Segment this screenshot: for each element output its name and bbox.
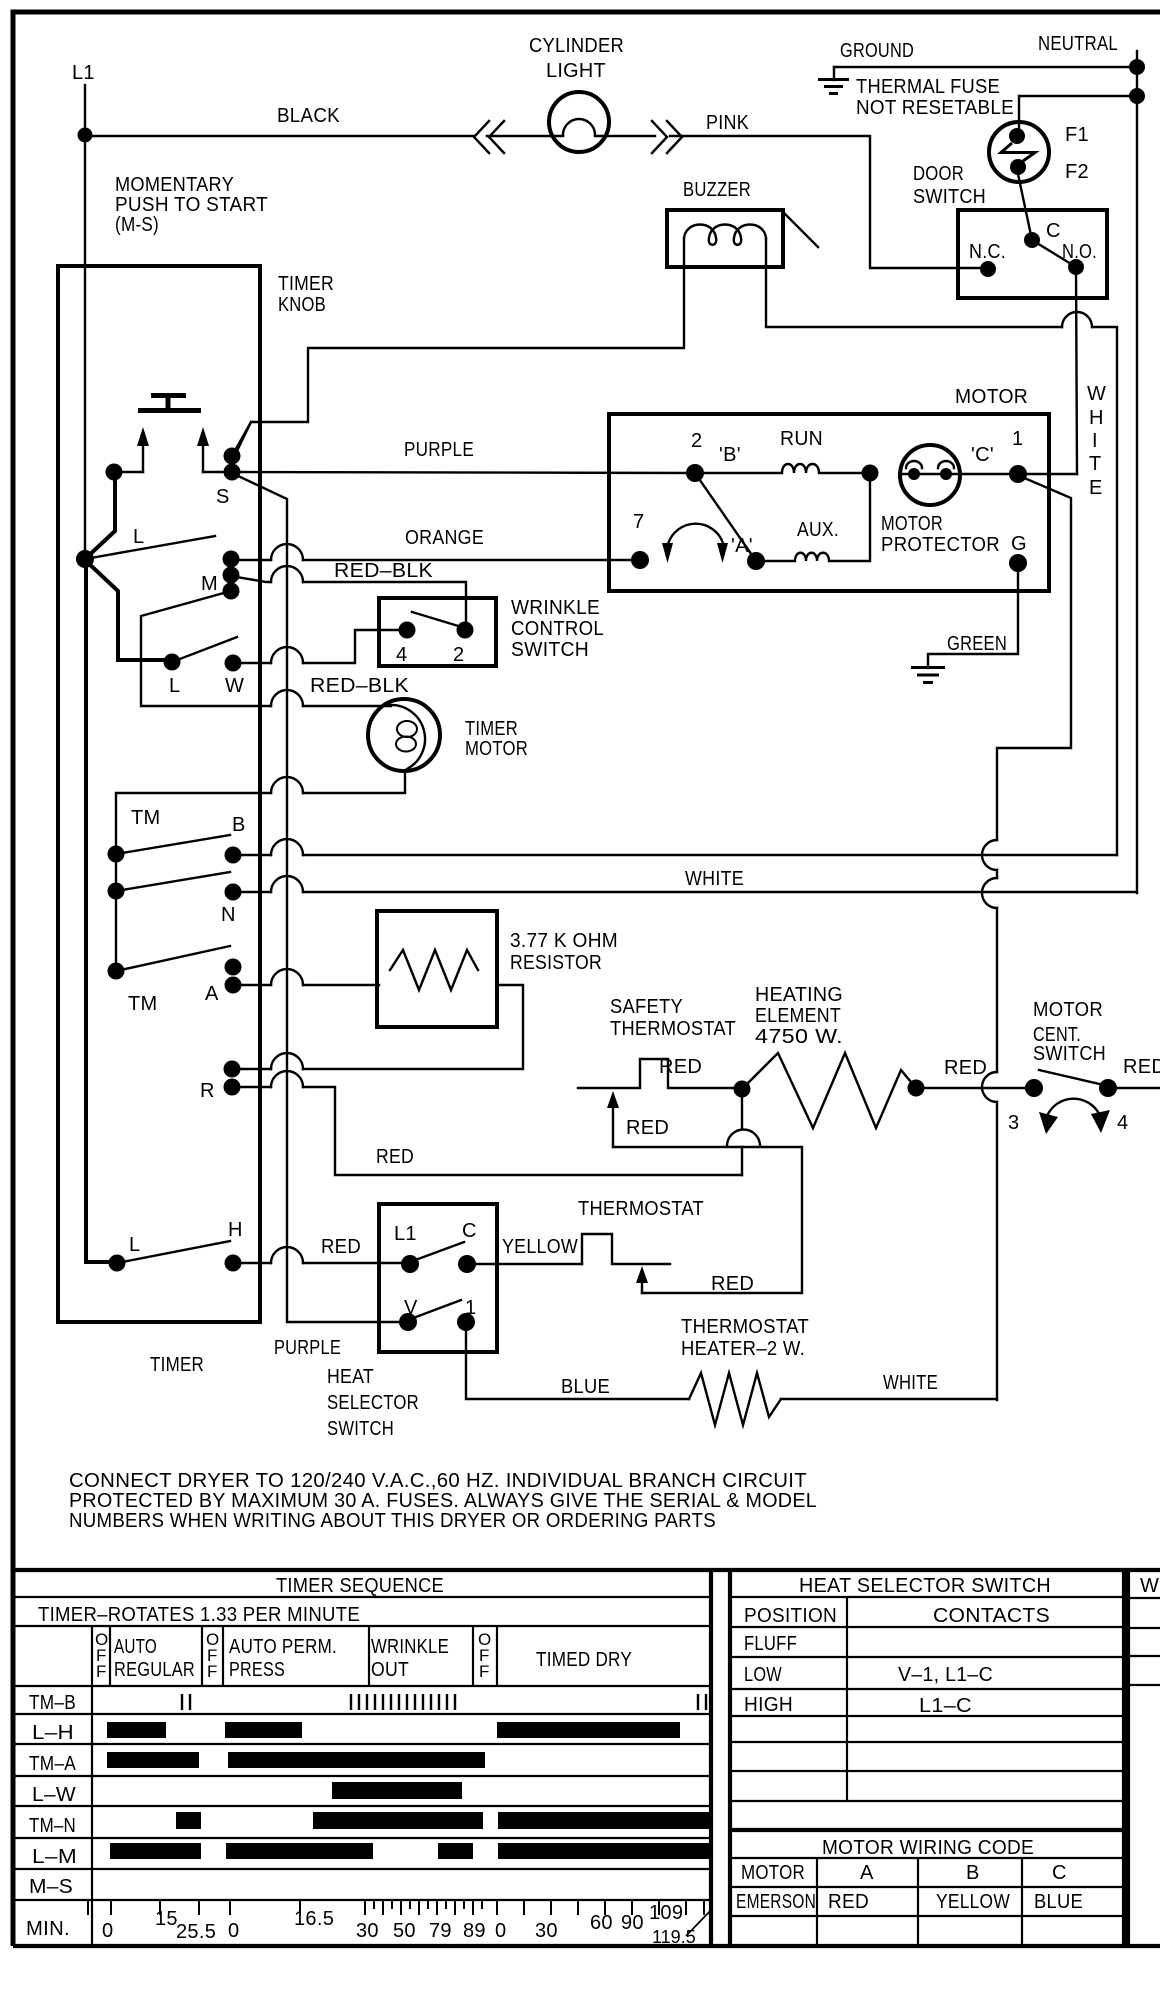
L-H cam bars (107, 1722, 166, 1738)
wire momentary left contact (114, 471, 143, 473)
wire ORANGE M to motor 7 (231, 559, 640, 561)
svg-text:YELLOW: YELLOW (936, 1891, 1010, 1913)
TM-N cam bars (176, 1812, 201, 1829)
motor box (609, 414, 1049, 591)
svg-text:7: 7 (633, 511, 644, 533)
svg-text:PROTECTOR: PROTECTOR (881, 534, 1000, 556)
svg-text:0: 0 (228, 1920, 239, 1942)
svg-text:HEAT SELECTOR SWITCH: HEAT SELECTOR SWITCH (799, 1575, 1051, 1597)
svg-text:RED: RED (828, 1891, 869, 1913)
safety thermostat sensor arrow (612, 1107, 614, 1147)
hop R wire over purple riser (271, 1053, 303, 1069)
svg-text:0: 0 (102, 1920, 113, 1942)
pin momentary L contact (106, 464, 123, 481)
svg-text:CONTACTS: CONTACTS (933, 1605, 1050, 1627)
svg-text:3: 3 (1008, 1112, 1019, 1134)
svg-text:GREEN: GREEN (947, 633, 1007, 655)
L-W cam bar (332, 1782, 462, 1799)
svg-text:4750 W.: 4750 W. (755, 1026, 843, 1048)
buzzer box (667, 210, 783, 267)
timer motor body (368, 699, 440, 771)
svg-text:TM: TM (128, 993, 157, 1015)
heat selector switch box (379, 1204, 497, 1352)
svg-text:PINK: PINK (706, 112, 749, 134)
resistor element (390, 950, 478, 990)
svg-text:BLUE: BLUE (561, 1376, 610, 1398)
svg-text:TM–B: TM–B (29, 1692, 76, 1714)
svg-text:A: A (860, 1862, 874, 1884)
svg-text:TM–N: TM–N (29, 1815, 76, 1837)
motor protector contacts (902, 461, 958, 474)
svg-text:WRINKLE: WRINKLE (511, 597, 600, 619)
svg-text:L1–C: L1–C (919, 1695, 972, 1717)
svg-text:POSITION: POSITION (744, 1605, 837, 1627)
pin wrinkle 4 (399, 622, 416, 639)
thermostat sensor arrow (641, 1283, 643, 1293)
rotation arrows cent switch (1048, 1099, 1098, 1114)
pin door switch N.O. (1068, 259, 1084, 275)
svg-text:WHITE: WHITE (883, 1372, 938, 1394)
node neutral-fuse junction (1129, 88, 1145, 104)
svg-text:THERMOSTAT: THERMOSTAT (610, 1018, 736, 1040)
table timer sequence frame (13, 1570, 1160, 1946)
svg-text:L1: L1 (394, 1223, 417, 1245)
wire S to purple riser diagonal (236, 475, 408, 1322)
wire R drop hop at red link (741, 1089, 743, 1175)
pin TM 2 (108, 883, 125, 900)
thick feed L node to momentary contact (85, 477, 115, 559)
hop timer-motor wire over purple riser (271, 690, 303, 706)
pin motor A (747, 552, 765, 570)
svg-text:NUMBERS WHEN WRITING ABOUT THI: NUMBERS WHEN WRITING ABOUT THIS DRYER OR… (69, 1510, 716, 1532)
wire buzzer to B riser (1092, 327, 1117, 855)
svg-text:MOTOR: MOTOR (1033, 999, 1103, 1021)
svg-text:30: 30 (356, 1920, 379, 1942)
pin H of L-H (225, 1255, 242, 1272)
svg-text:N.C.: N.C. (969, 241, 1006, 263)
thermal fuse body (989, 122, 1049, 182)
hop N wire over purple riser (271, 876, 303, 892)
svg-text:CONNECT DRYER TO 120/240 V.A.C: CONNECT DRYER TO 120/240 V.A.C.,60 HZ. I… (69, 1470, 807, 1492)
node neutral-ground junction (1129, 59, 1145, 75)
svg-text:15: 15 (155, 1908, 178, 1930)
svg-text:30: 30 (535, 1920, 558, 1942)
wire cent switch 4 to edge RED (1108, 1087, 1160, 1089)
svg-text:M–S: M–S (29, 1876, 73, 1898)
hop W wire over purple riser (271, 647, 303, 663)
hop H wire over purple riser (271, 1247, 303, 1263)
svg-text:H: H (1089, 407, 1104, 429)
blade motor 2 to A (695, 473, 756, 561)
wire neutral vertical to N (1136, 67, 1138, 893)
wire buzzer right lead (766, 239, 1062, 327)
svg-text:F: F (207, 1662, 217, 1681)
TM-B cam ticks left (182, 1694, 190, 1710)
svg-text:MIN.: MIN. (26, 1918, 70, 1940)
svg-text:L: L (129, 1234, 140, 1256)
pin heat sel L1 (401, 1255, 419, 1273)
wire timer motor bottom to TM pivot (116, 772, 405, 854)
svg-text:TIMER: TIMER (278, 273, 334, 295)
svg-text:PRESS: PRESS (229, 1659, 285, 1681)
svg-text:RED: RED (321, 1236, 361, 1258)
wire white drop to heater line (996, 1102, 998, 1400)
momentary actuator arrow left (142, 446, 144, 472)
svg-text:HEAT: HEAT (327, 1366, 374, 1388)
pin M middle (223, 567, 240, 584)
pin heat sel C (458, 1255, 476, 1273)
svg-text:LOW: LOW (744, 1664, 782, 1686)
wire R lower to safety thermostat (232, 1087, 742, 1175)
ruler long ticks (88, 1900, 704, 1915)
svg-text:I: I (1092, 430, 1098, 452)
pin M top (223, 551, 240, 568)
node L pivot (76, 550, 94, 568)
wire motor 1 to N.O. riser (1018, 473, 1077, 475)
TM-B cam ticks right (698, 1694, 706, 1710)
wire heating element to cent switch 3 (916, 1087, 1034, 1089)
svg-text:L–H: L–H (32, 1722, 74, 1744)
svg-text:TIMER: TIMER (150, 1354, 204, 1376)
wire A to resistor (233, 984, 379, 986)
ruler short ticks (374, 1900, 482, 1909)
svg-text:N.O.: N.O. (1062, 241, 1097, 263)
svg-text:RED: RED (1123, 1056, 1160, 1078)
wire C to thermostat YELLOW (467, 1263, 582, 1265)
wire buzzer left lead to S line (236, 239, 684, 453)
node heating element left (734, 1081, 751, 1098)
wire heat sel 1 down to BLUE (466, 1322, 689, 1399)
hop TM wire over purple riser (271, 777, 303, 793)
svg-text:TIMER SEQUENCE: TIMER SEQUENCE (276, 1575, 444, 1597)
svg-text:89: 89 (463, 1920, 486, 1942)
node L1 junction (78, 128, 93, 143)
door switch box (958, 210, 1107, 298)
wire sensor red link (613, 1147, 802, 1293)
pin motor 7 (631, 551, 649, 569)
svg-text:PUSH TO START: PUSH TO START (115, 194, 268, 216)
svg-text:RESISTOR: RESISTOR (510, 952, 602, 974)
L-M cam bars (110, 1843, 201, 1859)
svg-text:TIMER–ROTATES 1.33 PER MINUTE: TIMER–ROTATES 1.33 PER MINUTE (38, 1604, 360, 1626)
pin TM 1 (108, 846, 125, 863)
svg-text:(M-S): (M-S) (115, 214, 159, 236)
svg-text:MOTOR: MOTOR (741, 1862, 805, 1884)
blade wrinkle 2 to 4 (412, 612, 465, 628)
TM-A cam bars (107, 1752, 199, 1768)
svg-text:ʹCʹ: ʹCʹ (971, 444, 994, 466)
wire N to neutral riser (233, 891, 1137, 893)
wire white drop to cent switch level (996, 908, 998, 1072)
wire white drop segment (996, 870, 998, 878)
svg-text:NEUTRAL: NEUTRAL (1038, 33, 1118, 55)
svg-text:LIGHT: LIGHT (546, 60, 606, 82)
svg-text:ELEMENT: ELEMENT (755, 1005, 841, 1027)
hop white drop over heater wire (982, 1072, 997, 1102)
svg-text:CONTROL: CONTROL (511, 618, 604, 640)
cylinder light lamp (549, 92, 609, 152)
svg-text:ʹBʹ: ʹBʹ (719, 444, 741, 466)
wire PURPLE S to motor 2 (232, 472, 695, 473)
aux winding (756, 473, 870, 561)
buzzer coil (684, 225, 766, 245)
wire fuse to door switch common (1018, 174, 1032, 240)
wire H to heat selector L1 (233, 1262, 410, 1264)
timer motor coil (390, 705, 425, 769)
pin heat sel V (399, 1313, 417, 1331)
blade L-M from pivot (85, 536, 215, 559)
svg-text:F2: F2 (1065, 161, 1089, 183)
node run-aux junction (862, 465, 879, 482)
svg-text:RED–BLK: RED–BLK (310, 675, 409, 697)
svg-text:G: G (1011, 533, 1027, 555)
thermal fuse element (1001, 143, 1035, 161)
blade L-W (172, 637, 237, 662)
svg-text:25.5: 25.5 (176, 1921, 216, 1943)
svg-text:THERMOSTAT: THERMOSTAT (578, 1198, 704, 1220)
wire chevron to cylinder light (487, 135, 563, 137)
pin motor G (1009, 554, 1027, 572)
blade TM-N (116, 872, 230, 891)
svg-text:MOTOR: MOTOR (465, 738, 528, 760)
door switch blade C to N.O. (1032, 240, 1076, 267)
pin N (225, 884, 242, 901)
svg-text:WRINKLE: WRINKLE (371, 1636, 449, 1658)
svg-text:REGULAR: REGULAR (114, 1659, 195, 1681)
svg-text:2: 2 (691, 430, 702, 452)
label OFF column 3 (478, 1630, 491, 1681)
wire protector to pin 1 (960, 473, 1018, 475)
svg-text:3.77 K OHM: 3.77 K OHM (510, 930, 618, 952)
svg-text:CYLINDER: CYLINDER (529, 35, 624, 57)
svg-text:NOT RESETABLE: NOT RESETABLE (856, 97, 1014, 119)
svg-text:BLACK: BLACK (277, 105, 340, 127)
svg-text:60: 60 (590, 1912, 613, 1934)
svg-text:TM–A: TM–A (29, 1753, 76, 1775)
svg-text:V–1, L1–C: V–1, L1–C (898, 1664, 993, 1686)
motor protector body (900, 445, 960, 505)
pin TM 3 (108, 963, 125, 980)
svg-text:W: W (1087, 383, 1106, 405)
svg-text:119.5: 119.5 (652, 1927, 696, 1947)
resistor box 3.77 K OHM (377, 911, 497, 1027)
svg-text:L–M: L–M (32, 1846, 77, 1868)
svg-text:WHITE: WHITE (685, 868, 744, 890)
svg-text:4: 4 (1117, 1112, 1128, 1134)
pin L of L-W (164, 654, 181, 671)
svg-text:RUN: RUN (780, 428, 823, 450)
pin motor 1 (1009, 465, 1027, 483)
svg-text:F: F (96, 1662, 106, 1681)
pin W of L-W (225, 655, 242, 672)
thermostat heater element (689, 1373, 781, 1425)
svg-text:TIMER: TIMER (465, 718, 518, 740)
momentary actuator arrow right (202, 446, 204, 472)
svg-text:SELECTOR: SELECTOR (327, 1392, 419, 1414)
svg-text:W: W (225, 675, 244, 697)
pin door switch C (1024, 232, 1040, 248)
svg-text:F1: F1 (1065, 124, 1089, 146)
wire N.O. down to motor 1 (1076, 267, 1077, 474)
svg-text:MOTOR: MOTOR (881, 513, 943, 535)
cylinder light filament (563, 119, 595, 135)
svg-text:TIMED DRY: TIMED DRY (536, 1649, 632, 1671)
pin S lower (224, 464, 241, 481)
timer box (58, 266, 260, 1322)
svg-text:AUX.: AUX. (797, 519, 839, 541)
thick wire L node to L-W contact (85, 560, 172, 660)
svg-text:RED: RED (626, 1117, 669, 1139)
svg-text:SWITCH: SWITCH (913, 186, 986, 208)
svg-text:SWITCH: SWITCH (327, 1418, 394, 1440)
blade V-1 (408, 1300, 461, 1320)
pin A lower (225, 977, 242, 994)
wire lamp to right chevrons (595, 135, 655, 137)
wire neutral to ground (834, 66, 1137, 68)
svg-text:2: 2 (453, 644, 464, 666)
svg-text:16.5: 16.5 (294, 1908, 334, 1930)
svg-text:109: 109 (649, 1902, 683, 1924)
svg-text:HEATER–2 W.: HEATER–2 W. (681, 1338, 805, 1360)
svg-text:KNOB: KNOB (278, 294, 326, 316)
svg-text:BUZZER: BUZZER (683, 179, 751, 201)
svg-text:EMERSON: EMERSON (736, 1891, 816, 1913)
pin B (225, 847, 242, 864)
svg-text:YELLOW: YELLOW (502, 1236, 578, 1258)
hop R drop arc (727, 1130, 760, 1147)
svg-text:79: 79 (429, 1920, 452, 1942)
wire RED-BLK M to wrinkle 2 (231, 576, 466, 630)
pin heat sel 1 (457, 1313, 475, 1331)
wire GREEN G to ground (928, 563, 1018, 668)
wire B to riser x1117 (233, 854, 1117, 856)
ground symbol motor (911, 668, 945, 683)
wire L1 down to L node (84, 135, 86, 559)
svg-text:WI: WI (1140, 1575, 1160, 1597)
wire momentary right to S (203, 471, 232, 473)
wire S upper to buzzer riser (232, 422, 251, 456)
svg-text:PROTECTED BY MAXIMUM 30 A. FUS: PROTECTED BY MAXIMUM 30 A. FUSES. ALWAYS… (69, 1490, 817, 1512)
node heating element right (908, 1080, 925, 1097)
svg-text:C: C (1052, 1862, 1067, 1884)
thick wire L node down to L-H contact (86, 559, 117, 1262)
svg-text:50: 50 (393, 1920, 416, 1942)
pin R upper (224, 1061, 241, 1078)
chevron wire-break right (652, 121, 682, 153)
hop R lower over purple riser (271, 1071, 303, 1087)
svg-text:1: 1 (1012, 428, 1023, 450)
hop buzzer wire over N.O. wire (1062, 312, 1092, 327)
pin L of L-H (109, 1255, 126, 1272)
pin cent switch 3 (1025, 1079, 1043, 1097)
hop white drop over B wire (982, 840, 997, 870)
blade cent switch (1039, 1070, 1104, 1085)
pin R lower (224, 1079, 241, 1096)
ruler end slash (686, 1909, 712, 1936)
svg-text:RED: RED (376, 1146, 414, 1168)
wire WHITE heater to riser (781, 1398, 997, 1400)
hop red-blk over purple riser (271, 566, 303, 582)
wire resistor return to R (232, 985, 523, 1069)
wrinkle control switch box (379, 598, 496, 666)
wire motor 1 diagonal white drop (997, 477, 1071, 840)
momentary push button bar (138, 395, 201, 411)
svg-text:GROUND: GROUND (840, 40, 914, 62)
svg-text:PURPLE: PURPLE (274, 1337, 341, 1359)
blade TM-B (116, 835, 230, 854)
svg-text:FLUFF: FLUFF (744, 1633, 797, 1655)
svg-text:THERMAL FUSE: THERMAL FUSE (856, 76, 1000, 98)
svg-text:L1: L1 (72, 62, 95, 84)
svg-text:4: 4 (396, 644, 407, 666)
pin A upper (225, 959, 242, 976)
svg-text:N: N (221, 904, 236, 926)
svg-text:MOTOR: MOTOR (955, 386, 1028, 408)
svg-text:C: C (1046, 220, 1061, 242)
svg-text:R: R (200, 1080, 215, 1102)
chevron wire-break left (474, 121, 504, 153)
svg-text:THERMOSTAT: THERMOSTAT (681, 1316, 809, 1338)
svg-text:SWITCH: SWITCH (1033, 1043, 1106, 1065)
label OFF column 2 (206, 1630, 219, 1681)
safety thermostat element (578, 1059, 742, 1088)
buzzer striker (783, 212, 818, 247)
hop B wire over purple riser (271, 839, 303, 855)
pin S upper (224, 448, 241, 465)
svg-text:MOTOR WIRING CODE: MOTOR WIRING CODE (822, 1837, 1034, 1859)
svg-text:AUTO: AUTO (114, 1636, 157, 1658)
wire neutral stub (1136, 51, 1138, 67)
svg-text:PURPLE: PURPLE (404, 439, 474, 461)
pin F1 (1009, 128, 1025, 144)
svg-text:B: B (232, 814, 246, 836)
svg-text:L: L (133, 526, 144, 548)
svg-text:0: 0 (495, 1920, 506, 1942)
hop A wire over purple riser (271, 969, 303, 985)
svg-text:A: A (205, 983, 219, 1005)
wire fuse feed (1019, 96, 1137, 132)
blade L1-C (410, 1242, 464, 1262)
svg-text:SAFETY: SAFETY (610, 996, 683, 1018)
svg-text:ʹAʹ: ʹAʹ (731, 535, 753, 557)
ground symbol top (833, 67, 835, 80)
label OFF column 1 (95, 1630, 108, 1681)
pin door switch N.C. (980, 261, 996, 277)
wire BLACK L1 to chevrons (85, 135, 474, 137)
wire L1 stub (84, 85, 86, 135)
pin cent switch 4 (1099, 1079, 1117, 1097)
blade L-H (117, 1241, 230, 1263)
svg-text:RED–BLK: RED–BLK (334, 560, 433, 582)
wire PINK to door switch (670, 136, 988, 268)
heating element (742, 1053, 916, 1128)
svg-text:B: B (966, 1862, 980, 1884)
svg-text:TM: TM (131, 807, 160, 829)
svg-text:L: L (169, 675, 180, 697)
svg-text:MOMENTARY: MOMENTARY (115, 174, 234, 196)
wire TM pivot chain (115, 854, 117, 971)
svg-text:SWITCH: SWITCH (511, 639, 589, 661)
svg-text:F: F (479, 1662, 489, 1681)
pin F2 (1010, 159, 1026, 175)
svg-text:DOOR: DOOR (913, 163, 964, 185)
svg-text:RED: RED (944, 1057, 987, 1079)
TM-B cam ticks middle (351, 1694, 455, 1710)
table heat selector switch frame (730, 1570, 1124, 1946)
run winding (695, 464, 870, 473)
svg-text:HIGH: HIGH (744, 1694, 793, 1716)
svg-text:T: T (1089, 453, 1102, 475)
